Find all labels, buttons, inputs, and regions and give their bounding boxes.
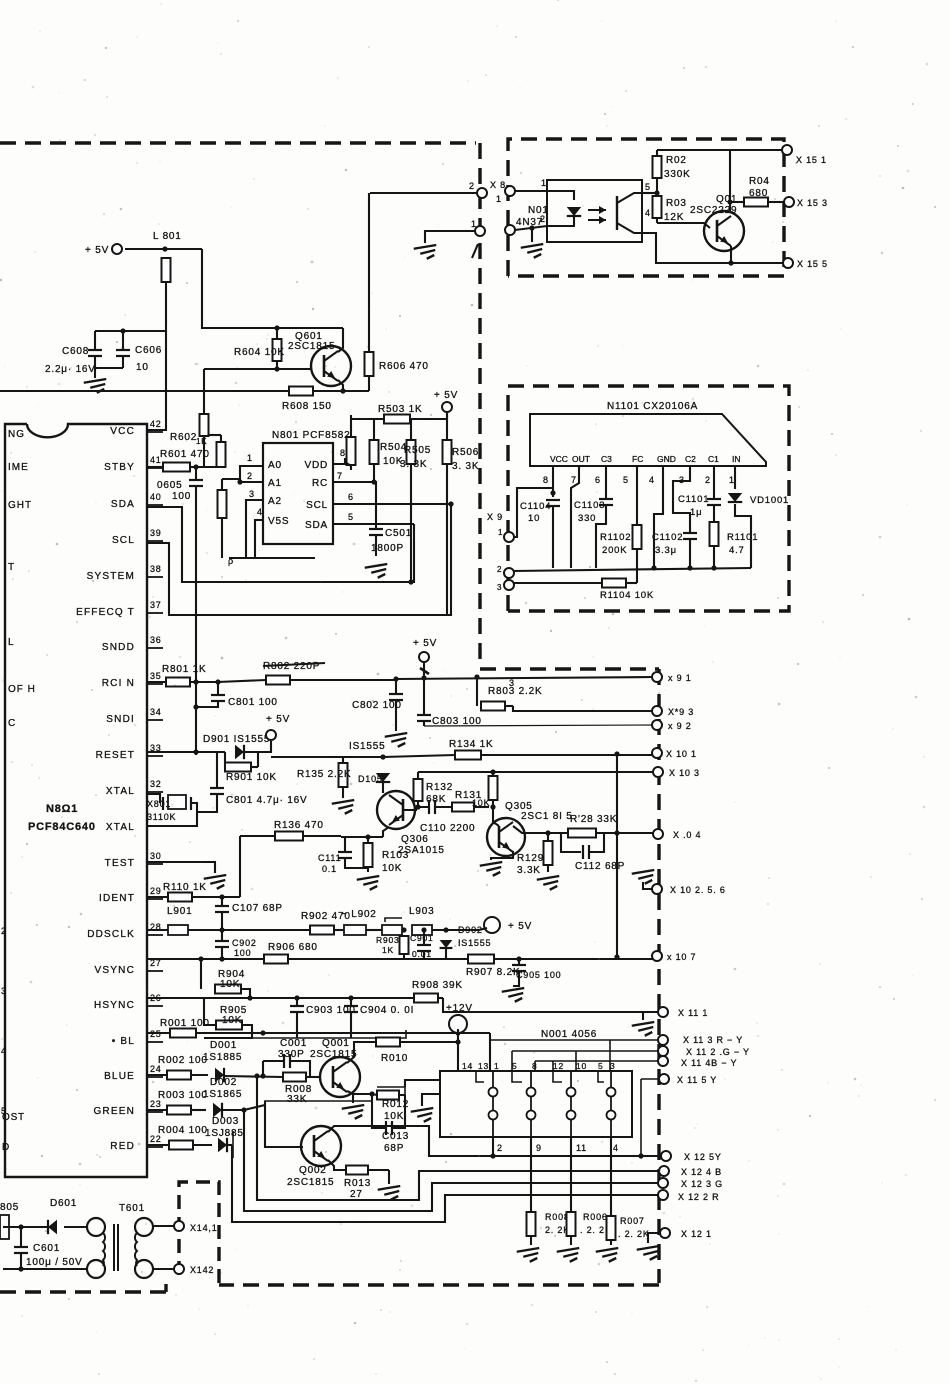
svg-text:C001: C001 bbox=[280, 1038, 307, 1049]
pin number 5 at N801 SDA bbox=[348, 512, 354, 522]
capacitor C1104 10 bbox=[546, 500, 560, 506]
svg-text:R002 100: R002 100 bbox=[158, 1055, 208, 1066]
wire N1101 pin4 GND stub bbox=[654, 466, 663, 568]
svg-text:C2: C2 bbox=[685, 454, 696, 464]
resistor R010 label bbox=[381, 1053, 408, 1064]
IC N001 switch3 control jog bbox=[553, 1071, 562, 1082]
pin number 4 at N801 VSS bbox=[257, 507, 263, 517]
capacitor C901 label bbox=[410, 933, 434, 943]
wire D601 anode rail bbox=[3, 1226, 48, 1228]
svg-text:5: 5 bbox=[348, 512, 354, 522]
svg-text:100: 100 bbox=[172, 491, 191, 502]
dashed border: bottom step joint bbox=[164, 1279, 167, 1292]
wire cap bottom rail bbox=[204, 1030, 406, 1038]
ground below R006 bbox=[557, 1248, 580, 1262]
wire C1103 bottom jog bbox=[596, 505, 606, 568]
resistor R602 1K bbox=[200, 414, 209, 436]
svg-text:A1: A1 bbox=[268, 478, 282, 489]
transistor Q305 designator bbox=[505, 801, 533, 812]
opto pin2 number bbox=[540, 214, 546, 224]
wire C501 bottom to ground bbox=[375, 535, 377, 556]
svg-text:680: 680 bbox=[749, 188, 768, 199]
wire RED bus bbox=[232, 1145, 660, 1222]
svg-text:1μ: 1μ bbox=[690, 507, 702, 518]
junction A1 on A0 riser bbox=[237, 479, 242, 484]
svg-text:Q001: Q001 bbox=[322, 1038, 350, 1049]
svg-text:VD1001: VD1001 bbox=[750, 495, 789, 506]
terminal X9.1 label bbox=[668, 673, 692, 683]
terminal X11.4 B-Y bbox=[658, 1056, 668, 1066]
wire RCIN rail segment bbox=[218, 680, 266, 682]
IC U801 left pin label T bbox=[8, 562, 15, 573]
IC U801 pin 40 SDA bbox=[111, 492, 163, 510]
wire R012 upper loop bbox=[377, 1087, 405, 1095]
resistor R001 100 bbox=[148, 1029, 263, 1038]
resistor R006 value bbox=[580, 1225, 612, 1235]
junction C801a top bbox=[215, 679, 220, 684]
capacitor C107 68P bbox=[215, 906, 229, 912]
IC N1101 pin name C2 bbox=[685, 454, 696, 464]
resistor R801 label bbox=[162, 664, 207, 675]
resistor R506 3.3K bbox=[443, 412, 452, 615]
transistor Q601 designator bbox=[295, 331, 323, 342]
svg-text:4: 4 bbox=[649, 475, 655, 485]
terminal X8 pin 1 bbox=[475, 226, 485, 236]
transformer T601 label bbox=[119, 1203, 145, 1214]
svg-text:R602: R602 bbox=[170, 432, 197, 443]
IC U801 pin 30 TEST bbox=[105, 851, 163, 869]
capacitor C107 label bbox=[232, 903, 283, 914]
wire Q305 collector rail bbox=[513, 826, 568, 833]
wire N1101 ground rail bbox=[513, 568, 751, 571]
terminal X9 name bbox=[487, 512, 503, 522]
wire N801 ground rail under bbox=[229, 557, 315, 559]
junction node at L801 top bbox=[162, 246, 167, 251]
wire N1101 pin6 stub bbox=[605, 466, 607, 498]
IC U801 left pin number 2 bbox=[1, 926, 7, 936]
terminal X12.2 label bbox=[678, 1192, 719, 1202]
svg-text:R007: R007 bbox=[620, 1216, 645, 1226]
svg-text:R604 10K: R604 10K bbox=[234, 347, 285, 358]
+5V at D901 label bbox=[266, 714, 290, 725]
opto arrow 2 head bbox=[599, 216, 606, 224]
svg-text:D001: D001 bbox=[210, 1040, 237, 1051]
svg-text:C606: C606 bbox=[135, 345, 162, 356]
wire opto emitter to X15.5 rail bbox=[642, 233, 784, 263]
wire X11.2 drop bbox=[511, 1051, 513, 1071]
IC N1101 pin name FC bbox=[632, 454, 643, 464]
svg-text:12: 12 bbox=[553, 1061, 564, 1071]
junction C802 top bbox=[393, 676, 398, 681]
svg-text:T: T bbox=[8, 562, 15, 573]
svg-text:R103: R103 bbox=[382, 850, 409, 861]
resistor R02 330K bbox=[653, 150, 662, 193]
wire R902 to L902 bbox=[334, 929, 344, 931]
wire Q601 base rail bbox=[204, 368, 311, 370]
junction D105 top bbox=[380, 754, 385, 759]
resistor R904 value bbox=[220, 979, 240, 990]
svg-text:R503 1K: R503 1K bbox=[378, 404, 423, 415]
svg-text:R801 1K: R801 1K bbox=[162, 664, 207, 675]
svg-text:R129: R129 bbox=[517, 853, 544, 864]
resistor R803 pin3 tag bbox=[509, 678, 515, 688]
wire DDSCLK pin to L901 bbox=[148, 929, 168, 931]
svg-text:R'28 33K: R'28 33K bbox=[570, 814, 617, 825]
IC N001 pin number 2 bottom bbox=[497, 1143, 503, 1153]
svg-text:X 10 3: X 10 3 bbox=[669, 768, 700, 778]
+5V at D902 label bbox=[508, 921, 532, 932]
svg-text:9: 9 bbox=[536, 1143, 542, 1153]
resistor R131 value bbox=[472, 798, 490, 808]
svg-text:0605: 0605 bbox=[157, 480, 182, 491]
diode D003 extra mark bbox=[232, 1131, 234, 1158]
svg-text:R803 2.2K: R803 2.2K bbox=[488, 686, 542, 697]
terminal X12.3 label bbox=[681, 1179, 723, 1189]
resistor R905 label bbox=[220, 1005, 247, 1016]
IC N001 internal switch 1 bbox=[489, 1071, 498, 1137]
terminal X10.3 label bbox=[669, 768, 700, 778]
wire N001 pin11 down to R006 bbox=[570, 1137, 572, 1212]
opto pin4 number bbox=[645, 208, 651, 218]
wire control 12 riser bbox=[552, 1061, 554, 1071]
wire opto input 2 bbox=[515, 226, 547, 230]
crystal X801 value bbox=[147, 812, 176, 822]
terminal X15.5 label bbox=[797, 259, 828, 269]
svg-text:SNDD: SNDD bbox=[102, 642, 135, 653]
svg-text:D003: D003 bbox=[212, 1116, 239, 1127]
transformer T601 secondary top loop bbox=[135, 1218, 153, 1236]
terminal X8 name bbox=[490, 180, 506, 190]
svg-text:1: 1 bbox=[541, 178, 547, 188]
wire C803 bottom to X9.2 line bbox=[423, 721, 425, 726]
transistor Q001 type bbox=[310, 1049, 357, 1060]
terminal X10.7 label bbox=[667, 952, 696, 962]
svg-text:x 9 1: x 9 1 bbox=[668, 673, 692, 683]
svg-text:1K: 1K bbox=[382, 945, 394, 955]
wire pullup1 top jog bbox=[208, 434, 221, 436]
inductor L903 body bbox=[412, 925, 432, 935]
wire R803 drop bbox=[476, 677, 478, 706]
wire RESET-row rail to D105/R134 bbox=[271, 756, 383, 758]
IC N1101 pin number 6 bbox=[595, 475, 601, 485]
svg-text:L 801: L 801 bbox=[153, 231, 182, 242]
capacitor C803 100 bbox=[417, 715, 431, 721]
capacitor C606 10 bbox=[116, 350, 130, 356]
dashed border: IR preamp box bbox=[508, 386, 789, 611]
svg-text:32: 32 bbox=[150, 779, 162, 789]
wire VCC branch down to +5V rail bbox=[202, 249, 343, 328]
junction C902 on VSYNC rail bbox=[219, 956, 224, 961]
svg-text:PCF84C640: PCF84C640 bbox=[28, 821, 96, 833]
resistor R802 220P (deleted) bbox=[266, 676, 396, 685]
IC U801 pin 31 XTAL bbox=[106, 822, 135, 833]
capacitor C601 100u 50V bbox=[14, 1247, 28, 1253]
capacitor C1101 value bbox=[690, 507, 702, 518]
IC U801 left pin number 3 bbox=[1, 986, 7, 996]
junction R505 on SDA bus bbox=[408, 579, 413, 584]
resistor R010 bbox=[376, 1038, 458, 1047]
junction ground-bus on RCIN rail bbox=[193, 679, 198, 684]
svg-text:R02: R02 bbox=[666, 155, 687, 166]
svg-text:RC: RC bbox=[312, 478, 328, 489]
svg-text:R1102: R1102 bbox=[600, 532, 631, 543]
IC N001 4066 title bbox=[541, 1029, 597, 1040]
svg-text:3: 3 bbox=[610, 1061, 616, 1071]
svg-text:3.3K: 3.3K bbox=[517, 865, 541, 876]
wire T601 secondary top to X141 bbox=[153, 1225, 174, 1227]
svg-text:L901: L901 bbox=[167, 906, 192, 917]
svg-text:N8Ω1: N8Ω1 bbox=[46, 803, 78, 815]
terminal X11.2 label bbox=[686, 1047, 750, 1057]
IC N1101 pin name OUT bbox=[572, 454, 590, 464]
+12V label bbox=[446, 1003, 473, 1014]
capacitor C605 100 bbox=[189, 480, 203, 486]
svg-text:68P: 68P bbox=[384, 1143, 404, 1154]
wire C605 ground bus down the page bbox=[195, 486, 197, 755]
IC N001 pin number 12 top bbox=[553, 1061, 564, 1071]
resistor R903 label bbox=[376, 935, 400, 945]
wire RESET rail bbox=[148, 751, 225, 753]
svg-text:37: 37 bbox=[150, 600, 162, 610]
IC N801 pin A2 bbox=[268, 496, 282, 507]
svg-text:RESET: RESET bbox=[96, 750, 135, 761]
diode D902 type bbox=[458, 938, 491, 948]
svg-text:+ 5V: + 5V bbox=[85, 245, 109, 256]
svg-text:R908 39K: R908 39K bbox=[412, 980, 463, 991]
wire R03 to Q01 base bbox=[657, 223, 710, 228]
svg-text:68K: 68K bbox=[426, 794, 446, 805]
resistor R012 value bbox=[384, 1111, 404, 1122]
wire ground tap on N001 left bbox=[422, 1094, 440, 1106]
svg-text:27: 27 bbox=[350, 1189, 363, 1200]
svg-text:1K: 1K bbox=[196, 437, 207, 446]
IC N801 pin VSS bbox=[268, 516, 289, 527]
svg-text:+ 5V: + 5V bbox=[434, 390, 458, 401]
optocoupler N01 4N37 body bbox=[547, 180, 642, 242]
transistor Q001 2SC1815 bbox=[320, 1057, 360, 1097]
capacitor C001 330P bbox=[284, 1054, 290, 1068]
svg-text:5: 5 bbox=[598, 1061, 604, 1071]
resistor R02 value bbox=[664, 169, 691, 180]
svg-text:. 2. 2K: . 2. 2K bbox=[618, 1229, 650, 1239]
resistor R001 label bbox=[160, 1018, 210, 1029]
svg-text:7: 7 bbox=[571, 475, 577, 485]
capacitor C013 value bbox=[384, 1143, 404, 1154]
capacitor C601 value bbox=[26, 1257, 83, 1268]
wire R904 loop left bbox=[200, 959, 202, 989]
resistor R135 2.2K bbox=[339, 757, 348, 798]
resistor R802 strikethrough label bbox=[263, 661, 325, 672]
wire D001 to Q001 base node bbox=[224, 1076, 283, 1077]
terminal X12.5Y bbox=[661, 1151, 671, 1161]
capacitor C803 label bbox=[432, 716, 482, 727]
transistor Q601 type bbox=[288, 341, 335, 352]
transistor Q01 type bbox=[690, 205, 737, 216]
diode D002 type bbox=[203, 1089, 242, 1100]
wire +12V riser bbox=[457, 1029, 459, 1071]
resistor R902 label bbox=[301, 911, 351, 922]
wire C1104 bottom to gnd rail bbox=[552, 506, 554, 568]
svg-text:R601 470: R601 470 bbox=[160, 449, 210, 460]
svg-text:R134 1K: R134 1K bbox=[449, 739, 494, 750]
svg-text:R608 150: R608 150 bbox=[282, 401, 332, 412]
IC U801 pin 37 EFFECQ T bbox=[76, 600, 163, 618]
terminal X10.1 label bbox=[666, 749, 697, 759]
terminal X8 pin1 slash bbox=[472, 244, 478, 258]
resistor R608 150 bbox=[289, 387, 369, 396]
wire C902 bottom to VSYNC rail bbox=[221, 947, 223, 959]
svg-text:11: 11 bbox=[576, 1143, 587, 1153]
transistor Q002 2SC1815 bbox=[301, 1126, 341, 1166]
svg-text:IME: IME bbox=[8, 462, 29, 473]
svg-text:2: 2 bbox=[497, 1143, 503, 1153]
svg-text:+ 5V: + 5V bbox=[508, 921, 532, 932]
resistor R505 label bbox=[404, 445, 431, 456]
resistor R132 label bbox=[426, 782, 453, 793]
IC N001 pin number 13 top bbox=[478, 1061, 489, 1071]
svg-text:13: 13 bbox=[478, 1061, 489, 1071]
IC N1101 pin number 4 bbox=[649, 475, 655, 485]
svg-text:X 9: X 9 bbox=[487, 512, 503, 522]
junction C903 top bbox=[294, 995, 299, 1000]
svg-text:C1102: C1102 bbox=[652, 532, 683, 543]
resistor R103 value bbox=[382, 863, 402, 874]
transistor Q306 type bbox=[398, 845, 445, 856]
wire D901 cathode to +5V bbox=[244, 741, 271, 752]
junction C001 branch bbox=[260, 1073, 265, 1078]
IC N1101 pin number 8 bbox=[543, 475, 549, 485]
wire Q306 collector down bbox=[383, 827, 389, 837]
resistor R103 10K bbox=[364, 837, 373, 872]
dashed border: main module step edge bbox=[480, 667, 659, 670]
svg-text:4.7: 4.7 bbox=[729, 545, 745, 556]
wire Q001 emitter down bbox=[347, 1091, 372, 1094]
svg-text:BLUE: BLUE bbox=[104, 1071, 135, 1082]
transformer T601 secondary bottom loop bbox=[135, 1260, 153, 1278]
capacitor C1102 3.3u bbox=[683, 533, 697, 539]
svg-text:1: 1 bbox=[498, 528, 503, 537]
svg-text:EFFECQ T: EFFECQ T bbox=[76, 607, 135, 618]
dashed border: main module right edge bbox=[657, 669, 660, 1283]
junction R103 top bbox=[365, 834, 370, 839]
resistor R03 value bbox=[664, 212, 684, 223]
junction C001 riser on BL bbox=[260, 1030, 265, 1035]
IC N801 pin A1 bbox=[268, 478, 282, 489]
resistor R1101 value bbox=[729, 545, 745, 556]
wire gnd stem at X11.1 bbox=[642, 1012, 644, 1020]
IC N001 pin number 11 bottom bbox=[576, 1143, 587, 1153]
wire T601 secondary bottom to X142 bbox=[153, 1268, 174, 1270]
ground below Q305 emitter bbox=[480, 862, 503, 876]
svg-text:7: 7 bbox=[337, 471, 343, 481]
IC U801 pin 35 RCI N bbox=[102, 671, 163, 689]
svg-text:X 12 3 G: X 12 3 G bbox=[681, 1179, 723, 1189]
capacitor C501 1800P bbox=[369, 529, 383, 535]
diode D001 type bbox=[203, 1052, 242, 1063]
svg-text:10K: 10K bbox=[382, 863, 402, 874]
resistor R131 label bbox=[455, 790, 482, 801]
wire D902 bottom to VSYNC rail bbox=[445, 948, 447, 959]
resistor R803 2.2K bbox=[481, 702, 513, 711]
svg-text:C904 0. 0I: C904 0. 0I bbox=[360, 1005, 414, 1016]
wire R136 left drop to IDENT bbox=[239, 836, 241, 897]
wire C605 lead bbox=[195, 467, 197, 479]
wire R904 loop right bbox=[241, 989, 250, 998]
wire L901 to node bbox=[188, 929, 310, 931]
wire +5V rail to resistors bbox=[351, 412, 447, 419]
resistor R602 value bbox=[196, 437, 207, 446]
pin number 6 at N801 SCL bbox=[348, 492, 354, 502]
terminal X11.1 bbox=[658, 1007, 668, 1017]
wire crystal right to XTAL2 bbox=[191, 803, 197, 812]
svg-text:1: 1 bbox=[496, 194, 502, 204]
resistor R904 label bbox=[218, 969, 245, 980]
terminal X15.1 bbox=[782, 145, 792, 155]
diode D003 1S1885 bbox=[218, 1138, 227, 1152]
svg-text:X 12 1: X 12 1 bbox=[681, 1229, 712, 1239]
wire Q306 base to C110 bbox=[403, 807, 429, 810]
transformer T601 secondary winding bbox=[135, 1233, 137, 1266]
svg-text:GND: GND bbox=[657, 454, 676, 464]
resistor R604 label bbox=[234, 347, 285, 358]
IC N001 pin number 10 top bbox=[576, 1061, 587, 1071]
ground on TEST pin bbox=[204, 875, 227, 889]
svg-text:N01: N01 bbox=[528, 205, 549, 216]
resistor R506 label bbox=[452, 447, 479, 458]
svg-text:• BL: • BL bbox=[112, 1036, 135, 1047]
diode D001 1S1885 bbox=[215, 1068, 224, 1082]
terminal X9 pin3 bbox=[504, 580, 514, 590]
wire Q01 emitter to X15.5 rail bbox=[730, 246, 732, 263]
ground at N001 left bbox=[411, 1108, 434, 1122]
junction R904 on HSYNC bbox=[247, 995, 252, 1000]
svg-text:2SC2229: 2SC2229 bbox=[690, 205, 737, 216]
dashed border: main module bottom edge right part bbox=[219, 1283, 659, 1286]
terminal X10.7 bbox=[652, 951, 662, 961]
svg-text:42: 42 bbox=[150, 419, 162, 429]
svg-text:C501: C501 bbox=[385, 528, 412, 539]
IC N001 switch2 control jog bbox=[512, 1071, 522, 1082]
resistor R008 label bbox=[285, 1084, 312, 1095]
IC U801 pin 32 XTAL bbox=[106, 779, 163, 797]
crystal X801 3110K body bbox=[163, 795, 191, 810]
svg-text:D002: D002 bbox=[210, 1077, 237, 1088]
ground below R005 bbox=[517, 1248, 540, 1262]
terminal X11.3 label bbox=[683, 1035, 743, 1045]
resistor R904 10K bbox=[215, 985, 241, 994]
transistor Q306 designator bbox=[401, 834, 429, 845]
terminal X9 pin1 bbox=[504, 532, 514, 542]
diode D105 label bbox=[358, 774, 383, 784]
svg-text:3110K: 3110K bbox=[147, 812, 176, 822]
wire VSYNC rail bbox=[148, 958, 264, 960]
svg-text:RCI N: RCI N bbox=[102, 678, 135, 689]
wire Q601 emitter to bottom rail bbox=[338, 380, 343, 391]
terminal X10.4 bbox=[653, 829, 663, 839]
ground below C802 bbox=[385, 733, 408, 747]
resistor R1102 label bbox=[600, 532, 631, 543]
IC U801 pin 28 DDSCLK bbox=[87, 922, 163, 940]
terminal X11.1 label bbox=[678, 1008, 708, 1018]
IC U801 left pin number 5 bbox=[1, 1106, 7, 1116]
resistor R134 label bbox=[449, 739, 494, 750]
IC N1101 pin number 1 bbox=[729, 475, 735, 485]
wire C905 bottom bbox=[513, 971, 519, 986]
svg-text:X 11 3 R − Y: X 11 3 R − Y bbox=[683, 1035, 743, 1045]
resistor R012 label bbox=[382, 1099, 409, 1110]
transformer T601 primary winding bbox=[103, 1233, 105, 1266]
resistor R128 label bbox=[570, 814, 617, 825]
